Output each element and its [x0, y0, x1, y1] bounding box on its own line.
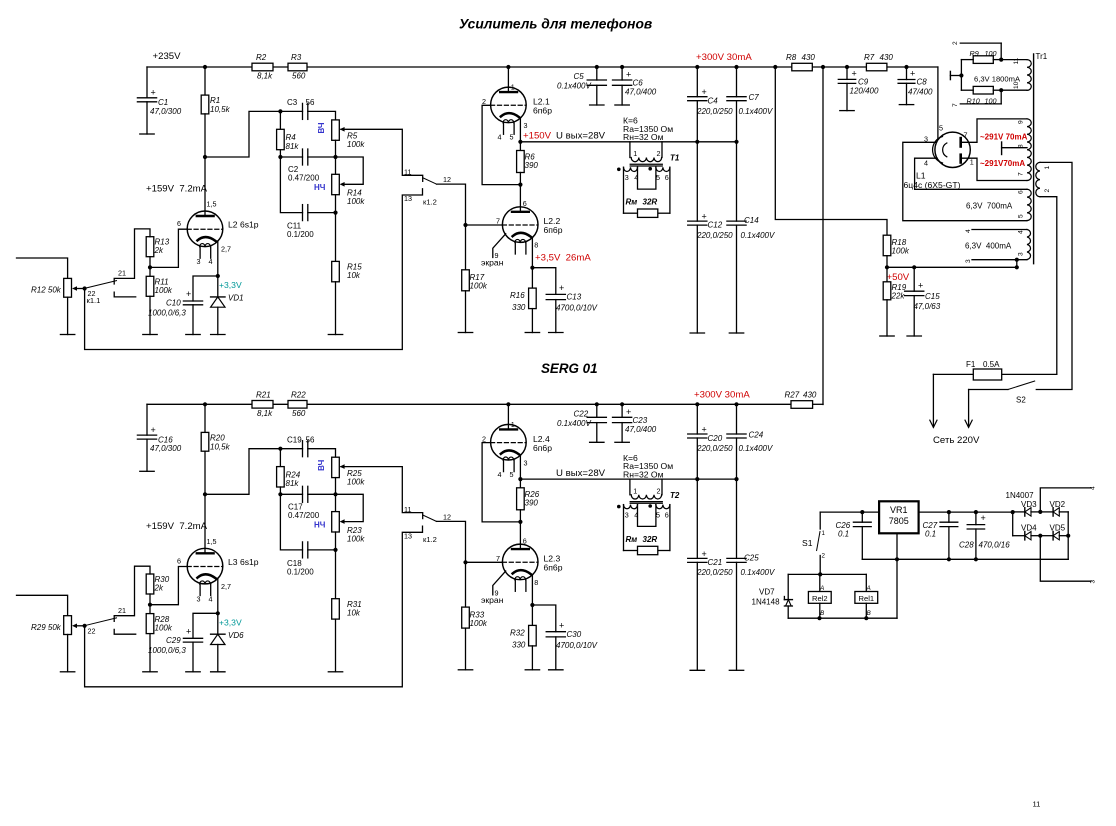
svg-text:11: 11 [404, 168, 411, 177]
wire mains left lead [932, 374, 934, 426]
switch S2 [969, 389, 1008, 391]
svg-text:экран: экран [481, 258, 504, 268]
svg-text:R27: R27 [785, 391, 800, 400]
svg-text:R7: R7 [864, 53, 875, 62]
resistor R22 [288, 401, 307, 409]
svg-text:470,0/16: 470,0/16 [979, 541, 1011, 550]
wire heater network left link [960, 60, 962, 91]
ground [899, 104, 913, 106]
capacitor C21 [688, 557, 707, 559]
svg-text:C10: C10 [166, 299, 181, 308]
capacitor C8 [906, 67, 908, 80]
capacitor C25 [727, 557, 746, 559]
svg-text:+3,5V 26mA: +3,5V 26mA [535, 253, 591, 264]
svg-text:100k: 100k [155, 623, 173, 632]
svg-text:R2: R2 [256, 53, 267, 62]
capacitor C28 [975, 512, 977, 525]
capacitor C18 [280, 494, 302, 550]
svg-text:НЧ: НЧ [314, 183, 326, 192]
switch к1.1 contact 22 [114, 629, 136, 634]
resistor R3 [288, 63, 307, 71]
triode L2 [187, 211, 223, 247]
winding 6,3V 400mA [972, 229, 1027, 231]
diode VD1 [217, 276, 219, 297]
svg-text:C8: C8 [917, 78, 928, 87]
ground [690, 669, 704, 671]
svg-text:100k: 100k [347, 534, 365, 543]
svg-text:5: 5 [656, 510, 660, 519]
svg-text:экран: экран [481, 595, 504, 605]
svg-text:R9: R9 [970, 49, 979, 58]
ground [525, 669, 539, 671]
svg-text:220,0/250: 220,0/250 [696, 568, 733, 577]
svg-text:B: B [820, 610, 824, 617]
capacitor C20 [696, 404, 698, 434]
resistor R19 [886, 267, 888, 282]
svg-text:0.1х400V: 0.1х400V [741, 568, 775, 577]
svg-text:C30: C30 [567, 630, 582, 639]
svg-text:C7: C7 [749, 93, 760, 102]
capacitor C26 [861, 512, 863, 522]
svg-text:12: 12 [443, 175, 451, 184]
svg-text:4: 4 [498, 133, 502, 142]
svg-text:U вых=28V: U вых=28V [556, 468, 606, 479]
switch к1.2 contact 13 [85, 526, 423, 687]
svg-text:C6: C6 [633, 79, 644, 88]
svg-text:4: 4 [209, 594, 213, 603]
svg-text:120/400: 120/400 [850, 87, 879, 96]
svg-text:3: 3 [965, 259, 972, 263]
svg-text:1: 1 [970, 158, 974, 167]
svg-text:4700,0/10V: 4700,0/10V [556, 641, 598, 650]
svg-text:22: 22 [88, 626, 96, 635]
svg-text:1: 1 [822, 530, 826, 537]
diode VD2 [1040, 511, 1053, 513]
wire primary to S2 [1036, 162, 1072, 389]
ground [549, 669, 563, 671]
svg-text:2: 2 [952, 41, 959, 45]
svg-text:C4: C4 [708, 97, 719, 106]
svg-text:3: 3 [197, 257, 201, 266]
svg-text:C19: C19 [287, 435, 302, 444]
svg-text:0.5A: 0.5A [983, 360, 1000, 369]
svg-text:C11: C11 [287, 222, 302, 231]
resistor R24 [279, 449, 281, 467]
svg-text:1: 1 [511, 83, 515, 92]
svg-text:~291V 70mA: ~291V 70mA [980, 133, 1028, 142]
svg-text:4: 4 [1090, 486, 1097, 490]
svg-text:VD1: VD1 [228, 294, 244, 303]
wire +50V node [887, 266, 1017, 268]
svg-text:R4: R4 [286, 133, 297, 142]
wire +V rail top channel [147, 66, 938, 68]
resistor R16 [531, 268, 533, 288]
svg-text:4: 4 [965, 229, 972, 233]
svg-text:390: 390 [525, 161, 539, 170]
svg-text:100k: 100k [155, 286, 173, 295]
svg-text:C17: C17 [288, 502, 303, 511]
svg-text:32R: 32R [643, 198, 658, 207]
capacitor C29 [193, 613, 218, 638]
svg-text:6п6р: 6п6р [544, 562, 563, 572]
wire screen pin 9 [493, 571, 506, 595]
svg-text:12: 12 [443, 512, 451, 521]
potentiometer R5 [332, 120, 340, 140]
svg-text:11: 11 [404, 505, 411, 514]
svg-text:2,7: 2,7 [221, 582, 231, 591]
svg-text:VD6: VD6 [228, 631, 244, 640]
svg-text:C21: C21 [708, 558, 723, 567]
svg-text:0.47/200: 0.47/200 [288, 174, 320, 183]
ground [549, 332, 563, 334]
svg-text:R24: R24 [286, 470, 301, 479]
svg-text:L1: L1 [916, 171, 926, 181]
svg-text:560: 560 [292, 72, 306, 81]
potentiometer R25 [332, 457, 340, 477]
svg-text:2k: 2k [154, 246, 164, 255]
svg-text:Rel2: Rel2 [812, 594, 828, 603]
wire link to bottom channel B+ [822, 67, 824, 405]
switch S1 [819, 512, 821, 529]
svg-text:5: 5 [510, 470, 514, 479]
svg-text:+: + [151, 88, 156, 98]
svg-text:430: 430 [803, 391, 817, 400]
svg-text:5: 5 [656, 173, 660, 182]
svg-text:R22: R22 [291, 390, 306, 399]
svg-text:47,0/400: 47,0/400 [625, 88, 657, 97]
svg-text:S2: S2 [1016, 396, 1026, 405]
svg-text:2: 2 [657, 149, 661, 158]
winding HV ~291V [1027, 119, 1031, 181]
wire contact 12 to output stage grid [437, 184, 466, 225]
svg-text:81k: 81k [286, 142, 300, 151]
ground [840, 110, 854, 112]
svg-text:3: 3 [625, 510, 629, 519]
svg-text:B: B [867, 610, 871, 617]
ground [729, 669, 743, 671]
svg-text:56: 56 [306, 98, 315, 107]
svg-text:+150V: +150V [523, 131, 552, 142]
svg-text:+: + [702, 549, 707, 559]
wire L1 plate pin 7 to HV winding [961, 119, 1027, 142]
svg-text:C28: C28 [959, 541, 974, 550]
svg-text:VD4: VD4 [1021, 524, 1037, 533]
svg-text:3: 3 [524, 121, 528, 130]
svg-text:C24: C24 [749, 430, 764, 439]
svg-text:L3 6s1p: L3 6s1p [228, 557, 259, 567]
svg-text:4: 4 [209, 257, 213, 266]
wire grid of L2 [150, 229, 187, 267]
svg-text:SERG 01: SERG 01 [541, 361, 598, 376]
resistor R1 [204, 67, 206, 95]
svg-text:6: 6 [523, 537, 527, 546]
svg-text:100k: 100k [470, 282, 488, 291]
svg-text:4: 4 [498, 470, 502, 479]
svg-text:Rм: Rм [626, 198, 638, 207]
svg-text:8,1k: 8,1k [257, 409, 273, 418]
ground [60, 334, 74, 336]
switch к1.2 blade [423, 515, 437, 521]
svg-text:R16: R16 [510, 291, 525, 300]
switch к1.2 contact 13 [85, 189, 423, 350]
wire cathode of L2.3 [531, 576, 533, 605]
ground [615, 104, 629, 106]
capacitor C15 [913, 267, 915, 291]
switch к1.2 contact 11 [341, 467, 423, 519]
winding primary 220V [1036, 162, 1040, 196]
svg-text:2: 2 [657, 486, 661, 495]
svg-text:2k: 2k [154, 583, 164, 592]
svg-text:к1.1: к1.1 [87, 296, 101, 305]
svg-text:Rel1: Rel1 [858, 594, 874, 603]
winding 6,3V 700mA [1027, 189, 1031, 220]
svg-text:220,0/250: 220,0/250 [696, 231, 733, 240]
svg-text:100k: 100k [347, 140, 365, 149]
resistor R9 [973, 56, 993, 64]
svg-text:6ц4с (6Х5-GT): 6ц4с (6Х5-GT) [904, 180, 961, 190]
wire heater stub bottom [960, 103, 1001, 105]
svg-text:100k: 100k [347, 477, 365, 486]
svg-text:F1: F1 [966, 360, 976, 369]
switch к1.1 contact 22 [114, 292, 136, 297]
svg-text:47,0/300: 47,0/300 [150, 444, 182, 453]
svg-text:4: 4 [924, 159, 928, 168]
svg-text:Tr1: Tr1 [1036, 52, 1048, 61]
resistor R15 [335, 213, 337, 262]
svg-text:C16: C16 [158, 435, 173, 444]
svg-text:+: + [559, 283, 564, 293]
resistor R7 [866, 63, 887, 71]
svg-text:100k: 100k [892, 247, 910, 256]
resistor R28 [146, 614, 154, 634]
svg-text:5: 5 [510, 133, 514, 142]
capacitor C23 [621, 404, 623, 417]
capacitor C16 [146, 404, 148, 435]
resistor R6 [519, 142, 521, 151]
capacitor C5 [596, 67, 598, 80]
svg-text:6: 6 [177, 219, 181, 228]
svg-text:+: + [981, 513, 986, 523]
svg-text:C29: C29 [166, 636, 181, 645]
svg-text:C12: C12 [708, 221, 723, 230]
capacitor C7 [736, 67, 738, 97]
svg-text:6: 6 [177, 556, 181, 565]
relay Rel1 [865, 574, 867, 591]
transformer Т2 [629, 479, 631, 495]
svg-text:C23: C23 [633, 416, 648, 425]
svg-text:1: 1 [633, 149, 637, 158]
svg-text:6: 6 [665, 510, 669, 519]
wire grid of L3 [150, 567, 187, 605]
ground [211, 334, 225, 336]
capacitor C6 [621, 67, 623, 80]
wire VR1 ground lead [896, 533, 898, 618]
svg-text:C15: C15 [925, 292, 940, 301]
svg-text:56: 56 [306, 435, 315, 444]
svg-text:1: 1 [511, 420, 515, 429]
capacitor C27 [948, 512, 950, 522]
svg-text:C22: C22 [574, 409, 589, 418]
potentiometer R12 [17, 258, 68, 278]
svg-text:+: + [910, 69, 915, 79]
relay Rel2 [819, 574, 821, 591]
svg-text:+3,3V: +3,3V [219, 617, 242, 627]
wire contact 12 to output stage grid [437, 521, 466, 562]
capacitor C11 [280, 157, 302, 213]
svg-text:5: 5 [1018, 214, 1025, 218]
wire L1 pin 4 to heater winding [915, 158, 1027, 189]
svg-text:C3: C3 [287, 98, 298, 107]
wire B+ dropper to R18 [775, 67, 887, 235]
wire bridge left column [1012, 512, 1014, 536]
svg-text:+: + [702, 87, 707, 97]
ground [690, 332, 704, 334]
wire L1 plate pin 1 to HV winding [961, 158, 1027, 180]
svg-text:A: A [819, 585, 824, 592]
diode VD4 [1013, 535, 1025, 537]
pentode L2.4 [491, 424, 527, 460]
wire grid of L2.1 [482, 105, 520, 184]
resistor R33 [462, 607, 470, 628]
svg-text:+: + [559, 620, 564, 630]
switch к1.1 contact 21 [114, 566, 150, 621]
ground [143, 671, 157, 673]
svg-text:0.1: 0.1 [838, 530, 849, 539]
wire anode node to RC filter [205, 111, 280, 157]
svg-text:7: 7 [496, 554, 500, 563]
svg-text:ВЧ: ВЧ [317, 122, 326, 133]
svg-text:Т2: Т2 [670, 491, 680, 500]
wire bridge AC top to Tr1 pin 4 [1040, 488, 1091, 512]
svg-text:+: + [151, 425, 156, 435]
svg-text:0.1х400V: 0.1х400V [739, 444, 773, 453]
svg-text:47,0/300: 47,0/300 [150, 107, 182, 116]
svg-text:3: 3 [197, 594, 201, 603]
svg-text:21: 21 [118, 269, 126, 278]
svg-text:5: 5 [939, 124, 943, 133]
svg-text:+: + [702, 212, 707, 222]
capacitor C14 [727, 220, 746, 222]
svg-text:7: 7 [496, 217, 500, 226]
wire cathode of L3 [217, 578, 219, 613]
svg-text:3: 3 [1090, 580, 1097, 584]
svg-text:R20: R20 [210, 433, 225, 442]
svg-text:1,5: 1,5 [207, 537, 217, 546]
svg-text:7: 7 [964, 131, 968, 140]
svg-text:390: 390 [525, 498, 539, 507]
svg-text:6: 6 [1018, 190, 1025, 194]
svg-text:10k: 10k [347, 608, 361, 617]
wire screen pin 9 [493, 234, 506, 258]
svg-text:C25: C25 [744, 553, 759, 562]
svg-text:+300V 30mA: +300V 30mA [696, 52, 752, 63]
wire wiper to R12 [77, 288, 85, 290]
resistor Rм 32R [638, 546, 658, 554]
svg-text:0.1х400V: 0.1х400V [557, 419, 591, 428]
ground [140, 470, 154, 472]
svg-text:430: 430 [880, 53, 894, 62]
rectifier tube L1 [937, 67, 939, 140]
svg-text:100: 100 [985, 49, 997, 58]
svg-text:3: 3 [1018, 252, 1025, 256]
ground [880, 335, 894, 337]
ground [590, 104, 604, 106]
svg-text:0.1/200: 0.1/200 [287, 568, 314, 577]
wire L1 cathode pin 3 to heater winding [903, 142, 1027, 220]
svg-text:Rн=32 Ом: Rн=32 Ом [623, 469, 664, 479]
svg-text:0.1х400V: 0.1х400V [557, 82, 591, 91]
ground [143, 334, 157, 336]
wire cathode of L2.4 [519, 455, 521, 479]
svg-text:+159V 7.2mA: +159V 7.2mA [146, 521, 208, 532]
capacitor C3 [280, 110, 302, 112]
capacitor C19 [280, 448, 302, 450]
svg-text:330: 330 [512, 303, 526, 312]
svg-text:1: 1 [633, 486, 637, 495]
svg-text:1000,0/6,3: 1000,0/6,3 [148, 309, 186, 318]
svg-text:4700,0/10V: 4700,0/10V [556, 304, 598, 313]
svg-text:4: 4 [634, 510, 638, 519]
svg-text:VR1: VR1 [890, 505, 908, 515]
svg-text:+: + [186, 626, 191, 636]
ground [186, 671, 200, 673]
svg-text:к1.2: к1.2 [423, 198, 437, 207]
wire grid of L2.4 [482, 443, 520, 522]
svg-text:+159V 7.2mA: +159V 7.2mA [146, 184, 208, 195]
svg-text:+: + [852, 69, 857, 79]
resistor R18 [883, 235, 891, 256]
wire cathode of L2 [217, 241, 219, 276]
diode VD6 [217, 613, 219, 634]
capacitor C4 [696, 67, 698, 97]
svg-text:220,0/250: 220,0/250 [696, 444, 733, 453]
svg-text:+3,3V: +3,3V [219, 280, 242, 290]
pentode L2.3 [502, 544, 538, 580]
pentode L2.2 [502, 207, 538, 243]
wire cathode of L2.1 [519, 118, 521, 142]
svg-text:330: 330 [512, 640, 526, 649]
svg-text:13: 13 [404, 194, 412, 203]
svg-text:13: 13 [404, 531, 412, 540]
svg-text:100k: 100k [347, 197, 365, 206]
svg-text:0.1: 0.1 [925, 530, 936, 539]
svg-text:+235V: +235V [153, 51, 182, 62]
capacitor C13 [532, 268, 555, 295]
capacitor C12 [688, 220, 707, 222]
svg-text:C13: C13 [567, 293, 582, 302]
svg-text:22k: 22k [891, 292, 906, 301]
resistor R32 [531, 605, 533, 625]
capacitor C2 [280, 156, 302, 158]
wire bridge AC bottom to Tr1 pin 3 [1040, 536, 1091, 582]
svg-text:2,7: 2,7 [221, 245, 231, 254]
wire +V rail bottom channel [147, 403, 791, 405]
svg-text:R21: R21 [256, 390, 271, 399]
svg-text:R1: R1 [210, 96, 220, 105]
resistor R27 [791, 401, 813, 409]
ground [60, 671, 74, 673]
svg-text:11: 11 [1013, 57, 1020, 64]
resistor R17 [462, 270, 470, 291]
svg-text:S1: S1 [802, 538, 813, 548]
svg-text:C18: C18 [287, 559, 302, 568]
ground [211, 671, 225, 673]
svg-text:2: 2 [822, 553, 826, 560]
ground [525, 332, 539, 334]
svg-text:8: 8 [534, 241, 538, 250]
svg-text:10k: 10k [347, 271, 361, 280]
svg-text:Усилитель для телефонов: Усилитель для телефонов [459, 17, 652, 32]
